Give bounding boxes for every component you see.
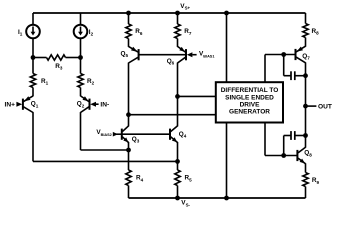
wire top supply rail V_S+ — [33, 12, 306, 14]
transistor Q1 — [22, 99, 24, 110]
capacitor C1 — [290, 71, 292, 80]
transistor Q4 — [169, 129, 171, 140]
resistor R8 — [303, 24, 308, 38]
node rail junction dot at R6 column — [126, 11, 131, 16]
transistor Q3 — [121, 129, 123, 140]
wire R2 to Q2 emitter — [80, 88, 82, 97]
wire Q3 emitter down to R4 — [128, 142, 130, 170]
wire junction to generator box upper input — [178, 95, 217, 97]
resistor R9 — [303, 173, 308, 187]
wire IN- arrow into Q2 base — [90, 102, 96, 107]
resistor R5 — [175, 170, 180, 186]
wire Q5 collector down to Q3 collector — [128, 63, 130, 127]
wire generator box top to rail — [226, 13, 228, 83]
wire node A to R1 — [32, 58, 34, 74]
node C2 output column junction dot — [303, 133, 308, 138]
node V_S- rail junction dot — [175, 196, 180, 201]
node A junction dot — [31, 55, 36, 60]
transistor Q6 — [185, 49, 187, 60]
wire R6 to Q5 emitter — [128, 39, 130, 47]
wire IN+ arrow into Q1 base — [16, 102, 22, 107]
wire V_BIAS1 arrow into Q6 base — [187, 52, 193, 57]
node Q8 base junction dot — [281, 153, 286, 158]
wire bottom supply rail V_S- — [129, 197, 306, 199]
transistor Q7 — [295, 49, 297, 60]
wire to C1 left plate — [284, 75, 291, 77]
svg-text:OUT: OUT — [318, 104, 332, 111]
resistor R4 — [126, 170, 131, 186]
wire Q1 collector to R5 column — [33, 160, 178, 162]
wire Q6 collector down to Q4 collector — [177, 63, 179, 127]
svg-text:IN+: IN+ — [5, 102, 16, 109]
wire rail to I1 — [32, 13, 34, 25]
wire generator output to Q8 base — [265, 155, 297, 157]
wire I2 to node B — [80, 38, 82, 58]
wire rail to R7 — [177, 13, 179, 24]
wire Q8 emitter down to R9 — [305, 163, 307, 172]
wire Q1 collector down — [32, 112, 34, 161]
wire rail to R6 — [128, 13, 130, 24]
resistor R6 — [126, 24, 131, 39]
resistor R3 — [47, 55, 66, 60]
svg-text:GENERATOR: GENERATOR — [229, 109, 270, 116]
wire R4 to bottom rail — [128, 186, 130, 199]
svg-text:DRIVE: DRIVE — [240, 101, 261, 108]
wire generator output to Q7 base — [265, 54, 296, 56]
svg-text:DIFFERENTIAL TO: DIFFERENTIAL TO — [221, 87, 279, 94]
wire generator box top output up — [264, 55, 266, 83]
resistor R7 — [175, 24, 180, 39]
wire OUT stub — [306, 105, 317, 107]
wire Q2 collector down — [80, 112, 82, 150]
wire R1 to Q1 emitter — [32, 88, 34, 97]
wire node B to R2 — [80, 58, 82, 74]
wire generator box bottom output down — [264, 122, 266, 155]
capacitor C2 — [290, 131, 292, 140]
node Q7 base junction dot — [281, 52, 286, 57]
node V_S+ rail junction dot at R7 column — [175, 11, 180, 16]
current source I2 — [74, 25, 88, 39]
resistor R2 — [78, 74, 83, 88]
wire rail corner to R8 — [305, 13, 307, 24]
wire Q5 base to Q6 base tie — [139, 54, 186, 56]
node rail junction dot at generator box bottom column — [224, 196, 229, 201]
wire R3 to node B — [66, 57, 81, 59]
wire R7 to Q6 emitter — [177, 39, 179, 47]
wire node A to R3 — [33, 57, 47, 59]
wire Q3 base to Q4 base tie — [122, 133, 170, 135]
wire to C2 left plate — [284, 135, 291, 137]
node junction dot to generator input upper — [175, 94, 180, 99]
transistor Q2 — [89, 99, 91, 110]
wire R5 to bottom rail — [177, 186, 179, 199]
wire junction to generator box lower input — [129, 114, 217, 116]
wire rail to I2 — [80, 13, 82, 25]
node Q3 emitter / Q2 collector junction dot — [126, 148, 131, 153]
wire I1 to node A — [32, 38, 34, 58]
resistor R1 — [30, 74, 35, 88]
transistor Q5 — [138, 49, 140, 60]
node C1 output column junction dot — [303, 73, 308, 78]
wire V_BIAS2 arrow into Q3 base — [113, 133, 122, 135]
wire Q2 collector to R4 column — [81, 149, 129, 151]
wire R9 to bottom rail — [305, 187, 307, 199]
wire C1 right plate to output column — [295, 75, 306, 77]
node junction dot to generator input upper-left — [126, 112, 131, 117]
wire junction up to capacitor C2 — [283, 136, 285, 156]
wire Q7 collector down to Q8 collector — [305, 62, 307, 147]
wire junction down to capacitor C1 — [283, 55, 285, 76]
svg-text:SINGLE ENDED: SINGLE ENDED — [225, 94, 274, 101]
wire generator box bottom to rail — [226, 122, 228, 198]
wire Q4 emitter down to R5 — [177, 142, 179, 170]
svg-text:IN-: IN- — [100, 102, 109, 109]
node rail junction dot at generator box column — [224, 11, 229, 16]
wire R8 to Q7 emitter — [305, 38, 307, 47]
wire C2 right plate to output column — [295, 135, 306, 137]
current source I1 — [26, 25, 40, 39]
node Q4 emitter / Q1 collector junction dot — [175, 159, 180, 164]
node B junction dot — [78, 55, 83, 60]
node OUT junction dot — [303, 104, 308, 109]
block U1 differential to single ended drive generator — [216, 82, 283, 122]
transistor Q8 — [296, 150, 298, 161]
